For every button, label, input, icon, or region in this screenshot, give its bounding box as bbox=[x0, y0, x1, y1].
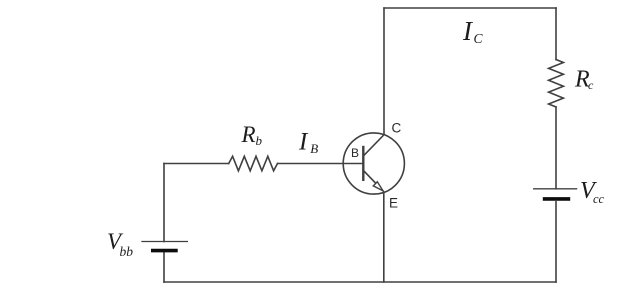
svg-text:B: B bbox=[351, 146, 359, 160]
wire base left segment bbox=[164, 163, 229, 165]
wire top (collector loop top) bbox=[384, 7, 556, 9]
wire collector vertical bbox=[383, 8, 385, 135]
wire right middle (Rc to Vcc) bbox=[555, 107, 557, 189]
wire right lower (Vcc to bottom) bbox=[555, 201, 557, 282]
label Vcc bbox=[580, 178, 605, 206]
svg-text:B: B bbox=[310, 141, 318, 156]
wire left lower (Vbb to bottom) bbox=[163, 253, 165, 283]
wire left upper (base line to Vbb) bbox=[163, 164, 165, 242]
battery Vbb negative plate bbox=[153, 249, 176, 253]
svg-text:bb: bb bbox=[120, 244, 134, 259]
battery Vbb positive plate bbox=[142, 241, 187, 243]
svg-text:C: C bbox=[474, 31, 484, 46]
resistor Rc bbox=[549, 60, 564, 108]
svg-text:b: b bbox=[256, 133, 263, 148]
wire bottom bbox=[164, 281, 556, 283]
wire base right segment bbox=[278, 163, 363, 165]
transistor Q1 emitter stroke bbox=[365, 172, 384, 191]
label Rb bbox=[241, 122, 263, 148]
wire right upper (top wire to Rc) bbox=[555, 8, 557, 60]
svg-text:R: R bbox=[241, 122, 256, 147]
transistor Q1 emitter arrowhead bbox=[373, 182, 383, 191]
svg-text:cc: cc bbox=[593, 192, 605, 206]
label IC bbox=[462, 16, 484, 46]
svg-text:C: C bbox=[392, 120, 402, 135]
svg-text:I: I bbox=[298, 129, 309, 156]
svg-text:I: I bbox=[462, 16, 474, 46]
battery Vcc negative plate bbox=[545, 197, 569, 201]
transistor Q1 base bar bbox=[362, 147, 364, 180]
battery Vcc positive plate bbox=[534, 188, 577, 190]
label Rc bbox=[574, 66, 594, 92]
svg-text:c: c bbox=[588, 78, 594, 92]
resistor Rb bbox=[229, 156, 278, 171]
label Vbb bbox=[107, 229, 133, 259]
label IB bbox=[298, 129, 318, 156]
transistor Q1 collector stroke bbox=[365, 135, 385, 155]
svg-text:E: E bbox=[389, 195, 398, 210]
wire emitter vertical bbox=[383, 192, 385, 282]
transistor Q1 body circle bbox=[343, 133, 404, 194]
